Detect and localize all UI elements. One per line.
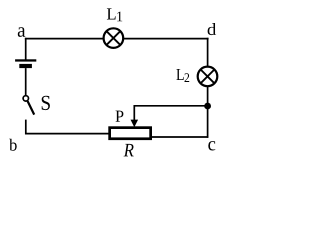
junction dot	[204, 103, 211, 110]
wiper arrow P	[131, 120, 139, 128]
node a	[18, 27, 26, 37]
lamp L1	[104, 28, 124, 48]
node c	[208, 141, 215, 150]
wire	[25, 38, 209, 40]
wire	[25, 68, 27, 95]
battery	[15, 59, 36, 68]
wire	[207, 38, 209, 138]
switch S	[23, 96, 34, 115]
label P	[116, 111, 124, 122]
label S	[42, 96, 50, 110]
label L2	[176, 69, 189, 82]
node d	[208, 23, 217, 35]
wire	[25, 120, 27, 135]
node b	[9, 139, 17, 151]
label L1	[107, 8, 122, 21]
rheostat R	[110, 128, 151, 139]
wire	[152, 136, 209, 138]
label R	[124, 144, 134, 157]
wire	[134, 106, 207, 121]
wire	[25, 133, 111, 135]
wire	[25, 38, 27, 60]
lamp L2	[198, 67, 218, 87]
